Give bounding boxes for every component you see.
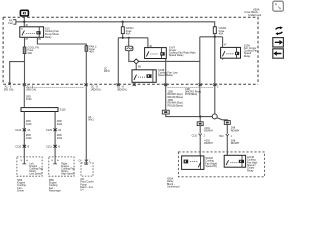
svg-text:40A: 40A — [126, 31, 131, 35]
motor1 caption — [17, 179, 26, 193]
wire F6 down long to motor mid — [85, 51, 87, 164]
motor2 wire terminal — [53, 157, 57, 164]
splice bus bar S110 — [21, 108, 58, 112]
svg-text:Speed Rly: Speed Rly — [205, 165, 217, 168]
junction dot — [199, 115, 201, 117]
relay K2 label — [169, 45, 196, 57]
wire K2 coil down — [165, 59, 167, 111]
wire X166 to bus — [166, 114, 213, 117]
svg-text:Relay: Relay — [247, 169, 254, 172]
icon back (boxed left arrow) — [273, 49, 284, 58]
svg-text:Speed Relay: Speed Relay — [169, 53, 185, 57]
svg-text:1040: 1040 — [26, 137, 32, 140]
svg-text:POS/NEG): POS/NEG) — [185, 93, 197, 96]
svg-text:Underhood: Underhood — [167, 186, 180, 189]
connector chevron right branch — [226, 134, 229, 136]
fuse block label — [245, 7, 262, 17]
svg-text:B10: B10 — [219, 136, 224, 138]
junction dot — [122, 21, 124, 23]
wire F3 drop — [122, 22, 124, 27]
svg-text:(RD GA): (RD GA) — [4, 88, 14, 91]
relay K1 (cooling fan pump motor relay) — [20, 25, 44, 41]
svg-text:Relay: Relay — [45, 35, 52, 39]
junction dot — [23, 21, 25, 23]
junction dot — [128, 37, 130, 39]
svg-text:Underhood: Underhood — [248, 13, 262, 17]
svg-text:40A: 40A — [27, 51, 32, 55]
bottom right dashed box (relay block) — [178, 152, 264, 177]
relay K4 (a/c condenser fan) — [221, 45, 241, 60]
wire top feed horizontal — [16, 22, 215, 27]
bus under F4 — [200, 34, 223, 116]
svg-text:RD 8: RD 8 — [104, 70, 110, 73]
fuse F2 — [23, 47, 26, 54]
mid box caption — [80, 178, 94, 192]
splice circle — [212, 114, 217, 119]
wire right branch into relay box — [226, 136, 228, 155]
connector box on wire X166 — [162, 110, 169, 114]
wire label X120 — [104, 67, 110, 73]
motor1 wire terminal — [23, 157, 27, 164]
svg-text:RD/WH: RD/WH — [204, 142, 213, 145]
mid ground dashed box — [81, 163, 93, 176]
wire K1 pin87 down — [24, 37, 26, 47]
relay K6 label — [247, 156, 258, 173]
fuse F3 — [121, 27, 124, 34]
fuse F4 label — [219, 26, 227, 35]
connector box right branch — [224, 121, 230, 125]
svg-text:C211: C211 — [46, 145, 52, 148]
svg-text:C125: C125 — [46, 129, 53, 132]
fuse F6 label — [89, 44, 97, 53]
wire X200 into relay box — [199, 136, 201, 156]
svg-text:(RD GA): (RD GA) — [26, 88, 36, 91]
left motor wire 1 — [23, 112, 25, 157]
svg-text:S110: S110 — [60, 108, 66, 112]
svg-text:RD/LB (Base): RD/LB (Base) — [168, 104, 184, 107]
inline connectors row 1 — [23, 128, 57, 131]
motor1 text — [29, 163, 43, 176]
connector gang dotted lines — [27, 86, 214, 88]
svg-text:Low Speed: Low Speed — [29, 173, 42, 176]
svg-text:WV1: WV1 — [88, 119, 94, 122]
svg-text:C124: C124 — [15, 129, 22, 132]
wire labels right section below border — [168, 88, 202, 108]
svg-text:Passenger: Passenger — [49, 190, 61, 193]
svg-text:LH: LH — [80, 189, 83, 192]
connector box on wire X200 — [199, 117, 201, 122]
relay K1 label — [45, 26, 60, 38]
right fan motor 2 dashed box — [49, 157, 74, 176]
svg-text:1041: 1041 — [57, 137, 63, 140]
relay K6 (high speed relay) — [224, 155, 245, 167]
svg-text:1041: 1041 — [57, 123, 63, 126]
icon pan/swap glyph — [275, 26, 282, 35]
relay K2 (cooling fan right high speed) — [145, 46, 167, 59]
fuse block underhood dashed boundary — [3, 17, 258, 84]
wire diamond to relay K3 — [135, 64, 137, 70]
svg-text:C210: C210 — [15, 145, 22, 148]
svg-text:(RD/GA): (RD/GA) — [117, 88, 127, 91]
power feed black box — [20, 10, 28, 16]
node A bracket — [13, 20, 16, 25]
wire labels below border — [4, 86, 219, 92]
fuse F6 — [85, 46, 88, 52]
icon next (boxed right arrow) — [273, 38, 284, 47]
wire labels — [26, 120, 63, 140]
relay K5 label — [205, 157, 217, 168]
fuse F4 — [213, 27, 216, 34]
svg-text:RD/WH: RD/WH — [231, 142, 240, 145]
icon expand — [273, 1, 284, 11]
svg-text:RD/WH: RD/WH — [204, 130, 213, 133]
jog from splice to right branch — [217, 118, 228, 121]
left fan motor 1 dashed box — [17, 157, 42, 176]
bus under F3 — [118, 34, 148, 85]
motor2 caption — [49, 179, 61, 193]
wire F2 down with branch — [24, 54, 26, 85]
junction dot — [122, 37, 124, 39]
mid connector arrow — [85, 160, 88, 162]
connector arrow A1 — [9, 83, 11, 85]
inline connectors row 2 — [23, 145, 57, 148]
svg-text:1040: 1040 — [26, 98, 32, 101]
connector chevron X200 — [199, 134, 202, 136]
relay K3 (cooling fan low speed) — [132, 70, 156, 83]
wire from black box down — [23, 16, 25, 27]
svg-text:40A: 40A — [219, 31, 224, 35]
wire K3 down — [133, 82, 135, 84]
svg-text:Fan: Fan — [8, 21, 13, 25]
wire into bus — [23, 84, 25, 107]
svg-text:Speed Relay: Speed Relay — [158, 73, 174, 77]
fuse F3 label — [126, 26, 134, 35]
wire K1 pin85 to fuse F6 — [37, 37, 86, 45]
fuse F2 label — [27, 46, 39, 55]
svg-text:Relay: Relay — [244, 54, 251, 58]
relay K5 (coolant pump relay) — [182, 156, 204, 170]
wire CB1 to splice — [129, 51, 200, 62]
relay K4 label — [244, 43, 259, 57]
svg-text:High Speed: High Speed — [61, 173, 75, 176]
node A page reference label — [8, 18, 13, 25]
svg-text:1040: 1040 — [26, 123, 32, 126]
left motor wire 2 — [54, 112, 56, 157]
motor2 text — [61, 163, 75, 176]
junction dot — [214, 36, 216, 38]
svg-text:C110: C110 — [192, 135, 198, 137]
svg-text:40A: 40A — [89, 50, 94, 54]
wire label mid left — [26, 96, 94, 122]
circuit breaker CB1 — [128, 38, 130, 46]
svg-text:Driver: Driver — [17, 190, 24, 193]
splice diamond — [134, 59, 139, 64]
wire branch left to connector — [10, 62, 25, 85]
wire right branch down — [226, 124, 228, 133]
svg-text:4B: 4B — [138, 67, 141, 69]
svg-text:(RD/GA): (RD/GA) — [91, 88, 101, 91]
border crossing marks — [23, 83, 217, 86]
relay K3 label — [158, 68, 178, 77]
relay block caption — [167, 177, 180, 188]
svg-text:RD/WH: RD/WH — [231, 129, 240, 132]
